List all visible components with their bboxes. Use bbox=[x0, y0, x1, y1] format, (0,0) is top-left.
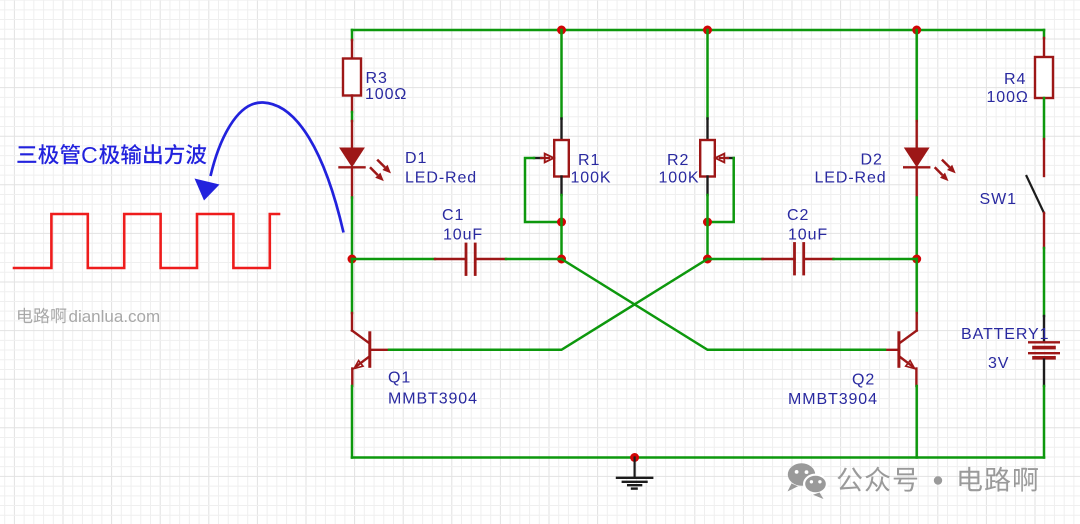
label Q1 bbox=[388, 370, 411, 387]
wire R1 wiper loop bbox=[525, 158, 562, 222]
label Q2 value MMBT3904 bbox=[788, 391, 878, 408]
switch SW1 bbox=[1027, 176, 1045, 213]
junction node B (561.5,259) bbox=[557, 255, 566, 264]
LED D2 bbox=[904, 121, 929, 198]
svg-text:100K: 100K bbox=[571, 170, 612, 187]
annotation square-wave trace bbox=[14, 214, 279, 268]
potentiometer R1 bbox=[534, 119, 569, 196]
label D2 bbox=[861, 152, 883, 169]
junction R2 wiper (707.5,222) bbox=[703, 218, 712, 227]
svg-text:MMBT3904: MMBT3904 bbox=[388, 391, 478, 408]
wire cross node C to Q1 base bbox=[389, 259, 708, 350]
svg-text:Q2: Q2 bbox=[852, 372, 875, 389]
wire R3 to D1 bbox=[351, 112, 354, 121]
svg-text:100Ω: 100Ω bbox=[365, 86, 407, 103]
svg-text:MMBT3904: MMBT3904 bbox=[788, 391, 878, 408]
label R3 value 100&#937; bbox=[365, 86, 407, 103]
wire battery to bottom rail bbox=[1043, 360, 1045, 458]
label BATTERY1 bbox=[961, 326, 1049, 343]
wire node A to Q1 collector bbox=[351, 259, 354, 313]
svg-text:SW1: SW1 bbox=[980, 191, 1017, 208]
svg-text:D2: D2 bbox=[861, 152, 883, 169]
transistor Q2 bbox=[885, 313, 917, 386]
label D2 value LED-Red bbox=[815, 170, 887, 187]
label BATTERY1 value 3V bbox=[988, 355, 1009, 372]
wire VCC to R1 bbox=[560, 30, 563, 119]
junction VCC/R1 (561.5,30) bbox=[557, 26, 566, 35]
label R4 value 100&#937; bbox=[987, 89, 1029, 106]
svg-text:10uF: 10uF bbox=[788, 227, 828, 244]
battery BATTERY1 bbox=[1029, 342, 1059, 358]
wire node C to C2 bbox=[708, 258, 763, 261]
potentiometer R2 bbox=[700, 119, 734, 196]
annotation curved arrow bbox=[195, 102, 344, 232]
svg-text:D1: D1 bbox=[405, 150, 427, 167]
wire VCC top rail bbox=[352, 29, 1044, 32]
LED D1 emission arrows bbox=[370, 160, 391, 182]
svg-text:100K: 100K bbox=[659, 170, 700, 187]
label C1 value 10uF bbox=[443, 227, 483, 244]
capacitor C2 bbox=[763, 244, 834, 275]
svg-text:C2: C2 bbox=[787, 207, 809, 224]
wire left branch top (VCC to R3) bbox=[351, 30, 354, 40]
wire R4 to SW1 bbox=[1043, 98, 1046, 176]
svg-text:Q1: Q1 bbox=[388, 370, 411, 387]
wire VCC to R2 bbox=[706, 30, 709, 119]
label C2 value 10uF bbox=[788, 227, 828, 244]
label R1 value 100K bbox=[571, 170, 612, 187]
LED D2 emission arrows bbox=[935, 160, 956, 182]
wire node D to Q2 collector bbox=[915, 259, 918, 313]
wire ground bottom rail bbox=[352, 456, 1044, 459]
svg-text:LED-Red: LED-Red bbox=[405, 170, 477, 187]
wire R1 to node B bbox=[560, 195, 563, 259]
resistor R4 bbox=[1035, 30, 1053, 98]
wire VCC to D2 bbox=[915, 30, 918, 121]
svg-text:3V: 3V bbox=[988, 355, 1009, 372]
svg-text:R2: R2 bbox=[667, 152, 689, 169]
junction node C (707.5,259) bbox=[703, 255, 712, 264]
watermark 电路啊 dianlua.com bbox=[18, 307, 160, 326]
wechat icon bbox=[788, 463, 827, 499]
svg-text:10uF: 10uF bbox=[443, 227, 483, 244]
watermark 公众号·电路啊 bbox=[837, 467, 1038, 492]
wire C2 to node D bbox=[834, 258, 917, 261]
svg-text:R3: R3 bbox=[366, 70, 388, 87]
svg-text:BATTERY1: BATTERY1 bbox=[961, 326, 1049, 343]
annotation text 三极管C极输出方波 bbox=[17, 142, 206, 168]
transistor Q1 bbox=[352, 313, 389, 386]
capacitor C1 bbox=[435, 244, 506, 275]
junction node D (916.7,259) bbox=[912, 255, 921, 264]
label Q1 value MMBT3904 bbox=[388, 391, 478, 408]
label Q2 bbox=[852, 372, 875, 389]
wire SW1 to battery bbox=[1043, 213, 1045, 341]
junction VCC/D2 (916.7,30) bbox=[912, 26, 921, 35]
label R3 bbox=[366, 70, 388, 87]
wire D2 to node D bbox=[915, 198, 918, 260]
svg-text:LED-Red: LED-Red bbox=[815, 170, 887, 187]
svg-text:R4: R4 bbox=[1004, 71, 1026, 88]
label D1 bbox=[405, 150, 427, 167]
label C2 bbox=[787, 207, 809, 224]
wire mid rail node A to C1 bbox=[352, 258, 435, 261]
label R2 bbox=[667, 152, 689, 169]
ground bbox=[617, 458, 652, 489]
junction ground tap (634.6,457.5) bbox=[630, 453, 639, 462]
label D1 value LED-Red bbox=[405, 170, 477, 187]
junction VCC/R2 (707.5,30) bbox=[703, 26, 712, 35]
resistor R3 bbox=[343, 40, 361, 112]
LED D1 bbox=[340, 121, 365, 198]
label R1 bbox=[578, 152, 600, 169]
wire D1 to node A bbox=[351, 198, 354, 260]
wire Q2 emitter to bottom rail bbox=[915, 386, 918, 458]
junction node A (352,259) bbox=[348, 255, 357, 264]
wire R2 wiper loop bbox=[708, 158, 734, 222]
label R2 value 100K bbox=[659, 170, 700, 187]
svg-text:100Ω: 100Ω bbox=[987, 89, 1029, 106]
label R4 bbox=[1004, 71, 1026, 88]
wire cross node B to Q2 base bbox=[562, 259, 886, 350]
svg-text:dianlua.com: dianlua.com bbox=[69, 307, 161, 326]
label SW1 bbox=[980, 191, 1017, 208]
junction R1 wiper (561.5,222) bbox=[557, 218, 566, 227]
wire C1 to node B bbox=[506, 258, 562, 261]
wire R2 to node C bbox=[706, 195, 709, 259]
label C1 bbox=[442, 207, 464, 224]
svg-text:R1: R1 bbox=[578, 152, 600, 169]
wire Q1 emitter to bottom rail bbox=[351, 386, 354, 458]
svg-text:C: C bbox=[81, 142, 98, 168]
svg-text:C1: C1 bbox=[442, 207, 464, 224]
